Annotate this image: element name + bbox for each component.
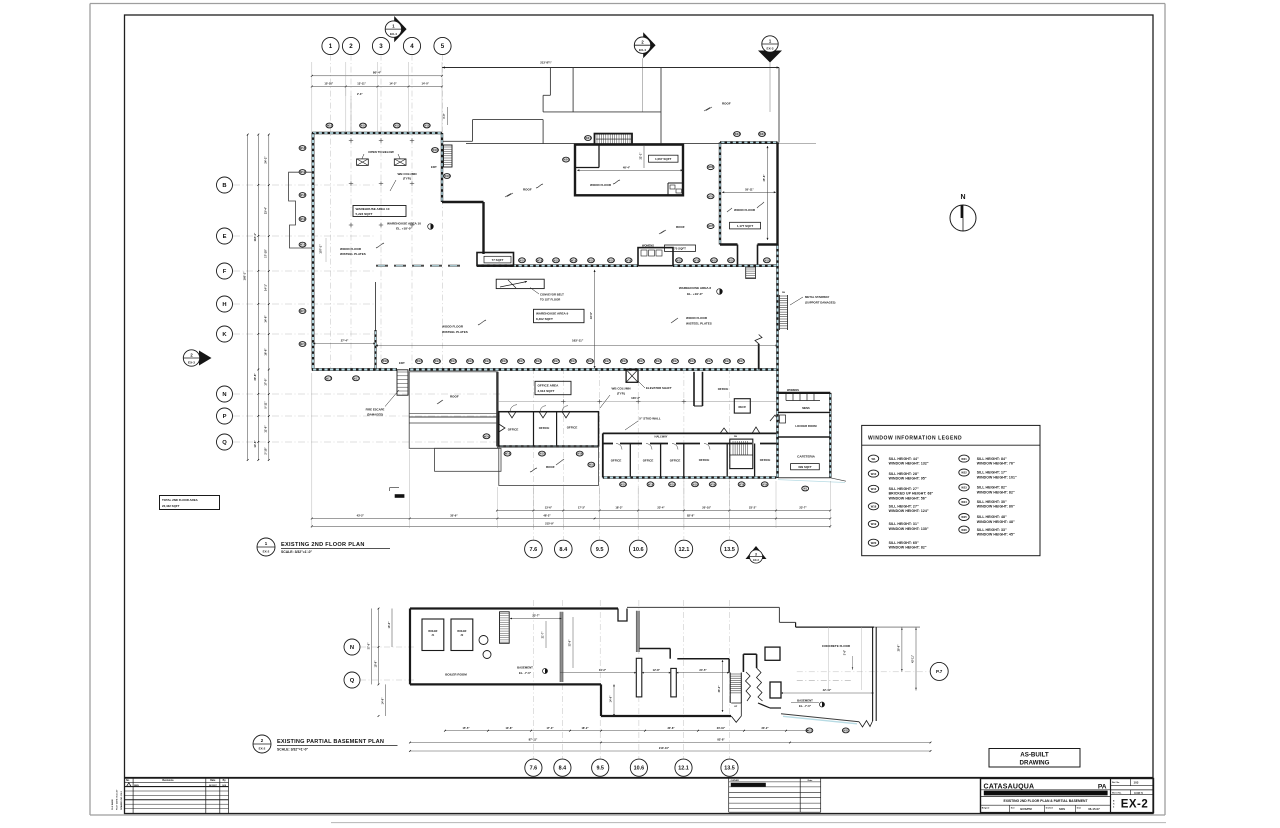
svg-text:PA: PA (1098, 783, 1107, 790)
svg-text:W13: W13 (467, 359, 473, 363)
svg-text:12.1: 12.1 (678, 547, 689, 553)
svg-text:(DAMAGED): (DAMAGED) (367, 413, 383, 417)
svg-text:8.4: 8.4 (559, 547, 568, 553)
warehouse 10 west wall (312, 133, 315, 370)
grid bubble 2 (342, 37, 359, 54)
svg-text:W13: W13 (450, 359, 456, 363)
grid bubble E (217, 228, 233, 244)
svg-text:42'-11": 42'-11" (912, 654, 915, 663)
dim segments top (312, 86, 442, 88)
grid bubble P (217, 408, 233, 424)
svg-text:126'-3": 126'-3" (631, 396, 641, 400)
window marker W19 (576, 451, 583, 456)
svg-text:W13: W13 (434, 359, 440, 363)
svg-text:9.5: 9.5 (596, 766, 604, 772)
window marker W17 (604, 359, 611, 364)
dim 126-3 (497, 401, 778, 403)
open to below hatch box 2 (394, 159, 406, 166)
svg-text:EXISTING 2ND FLOOR PLAN: EXISTING 2ND FLOOR PLAN (281, 542, 365, 548)
svg-text:4'-0": 4'-0" (442, 112, 446, 118)
svg-text:EL. -7'-0": EL. -7'-0" (799, 704, 812, 708)
window marker W18 (432, 148, 439, 153)
roof outline verticals (660, 68, 662, 144)
dim 21-7 basement (545, 621, 547, 648)
svg-text:BASEMENT: BASEMENT (797, 699, 813, 703)
window marker W13 (501, 359, 508, 364)
svg-text:WINDOW HEIGHT: 95": WINDOW HEIGHT: 95" (889, 477, 927, 481)
window marker W18 (299, 193, 306, 198)
svg-text:Q: Q (222, 440, 227, 446)
svg-text:OFFICE: OFFICE (611, 458, 622, 462)
svg-text:BASEMENT: BASEMENT (517, 666, 533, 670)
svg-text:W13: W13 (621, 359, 627, 363)
grid bubble 10.6 (629, 540, 647, 558)
svg-text:W18: W18 (608, 258, 614, 262)
svg-text:WINDOW HEIGHT: 132": WINDOW HEIGHT: 132" (889, 462, 929, 466)
grid line row H (233, 303, 374, 305)
svg-text:15'-5": 15'-5" (462, 726, 470, 730)
svg-text:W18: W18 (537, 258, 543, 262)
svg-text:Date: Date (808, 779, 814, 782)
grid bubble 4 (403, 37, 420, 54)
svg-text:87'-11": 87'-11" (529, 738, 538, 742)
svg-text:DRAWING: DRAWING (1020, 760, 1050, 767)
south warehouse wall west segment (312, 368, 397, 371)
svg-text:WINDOW HEIGHT: 48": WINDOW HEIGHT: 48" (977, 520, 1015, 524)
grid line col 12.1 (683, 368, 685, 540)
window marker W18 (382, 359, 389, 364)
svg-text:3,613 SQFT: 3,613 SQFT (538, 389, 555, 393)
office upper right walls (693, 372, 695, 406)
window marker W18 (570, 258, 577, 263)
svg-text:3'-6": 3'-6" (843, 649, 846, 655)
svg-text:WOOD FLOOR: WOOD FLOOR (734, 208, 756, 212)
dim 14-9 basement (613, 684, 615, 716)
svg-text:48'-4": 48'-4" (623, 165, 631, 169)
wall W10 to annex (442, 201, 484, 203)
svg-text:No.: No. (126, 780, 130, 782)
window marker W13 (621, 359, 628, 364)
svg-text:SILL HEIGHT: 28": SILL HEIGHT: 28" (889, 472, 919, 476)
svg-text:AS-BUILT: AS-BUILT (1020, 751, 1049, 758)
office wing west wall (496, 372, 498, 447)
window marker W13 (689, 359, 696, 364)
svg-text:W18: W18 (424, 123, 430, 127)
basement right east wall pair (872, 627, 874, 721)
svg-text:06-15-07: 06-15-07 (1088, 807, 1100, 811)
mid wall with windows (477, 264, 638, 267)
basement stair up (729, 673, 731, 704)
svg-text:SILL HEIGHT: 31": SILL HEIGHT: 31" (889, 522, 919, 526)
left office row south wall (499, 445, 599, 447)
svg-text:Revisions: Revisions (162, 779, 174, 782)
grid bubble Q (217, 434, 233, 450)
svg-text:W20: W20 (484, 434, 490, 438)
hallway door arcs (616, 444, 622, 450)
svg-text:77 SQFT: 77 SQFT (492, 258, 504, 262)
window marker W17 (706, 359, 713, 364)
svg-text:06/15/07: 06/15/07 (209, 785, 218, 787)
svg-text:SILL HEIGHT: 44": SILL HEIGHT: 44" (889, 457, 919, 461)
west annex footprint jogs (289, 172, 312, 248)
svg-text:UP: UP (734, 706, 738, 708)
svg-text:W17: W17 (604, 359, 610, 363)
grid bubble 8.4 (555, 540, 573, 558)
svg-text:14'-0": 14'-0" (422, 81, 430, 85)
window marker W18 (620, 482, 627, 487)
svg-text:24'-2": 24'-2" (264, 156, 268, 164)
stair house 1067 outer walls (575, 145, 683, 196)
svg-text:OFFICE AREA: OFFICE AREA (538, 383, 560, 387)
svg-text:EL. -7'-0": EL. -7'-0" (519, 671, 532, 675)
grid line col 10.6 (637, 368, 639, 540)
svg-text:22'-1": 22'-1" (639, 152, 643, 160)
window marker W13 (467, 359, 474, 364)
grid bubble F (217, 263, 233, 279)
window marker W26 (563, 157, 570, 162)
bottom extension lines (311, 373, 313, 528)
grid bubble N (344, 639, 360, 655)
window marker W18 (553, 258, 560, 263)
svg-text:EL. +19'-0": EL. +19'-0" (687, 292, 703, 296)
wood floor room 1177 walls (720, 141, 778, 143)
roof outline mid lines (543, 111, 661, 113)
womens mens rooms (778, 411, 830, 413)
svg-text:W18: W18 (676, 258, 682, 262)
grid line col 4 (411, 55, 413, 368)
svg-text:W26: W26 (961, 528, 967, 532)
svg-text:F: F (223, 269, 227, 275)
redacted firm bar (984, 791, 1108, 796)
basement mid south walls (600, 684, 602, 716)
wall stub x375 (375, 282, 377, 330)
hallway walls (603, 432, 776, 434)
svg-text:WOOD FLOOR: WOOD FLOOR (340, 247, 362, 251)
svg-text:W10: W10 (871, 472, 877, 476)
svg-text:Date: Date (210, 779, 216, 782)
svg-text:23'-4": 23'-4" (264, 206, 268, 214)
svg-text:SILL HEIGHT: 30": SILL HEIGHT: 30" (977, 500, 1007, 504)
window marker W19 (299, 217, 306, 222)
svg-text:WOOD FLOOR: WOOD FLOOR (590, 183, 612, 187)
svg-text:13'-11": 13'-11" (357, 81, 366, 85)
svg-text:N: N (222, 392, 226, 398)
svg-text:BCS/PM: BCS/PM (1020, 807, 1032, 811)
svg-text:ROOF: ROOF (450, 395, 459, 399)
dim 33-9 basement (572, 617, 574, 668)
window marker W18 (326, 123, 333, 128)
window marker W23 (707, 165, 714, 170)
window marker W18 (676, 258, 683, 263)
svg-text:12.1: 12.1 (678, 766, 689, 772)
womens room mid (638, 248, 673, 266)
window marker W18 (423, 123, 430, 128)
boiler 1 (422, 619, 444, 651)
svg-text:Sheet No.: Sheet No. (1112, 792, 1122, 795)
svg-text:15'-10": 15'-10" (324, 81, 334, 85)
svg-text:W18: W18 (553, 258, 559, 262)
basement roof line (627, 606, 779, 608)
window marker W13 (484, 359, 491, 364)
svg-text:34'-2": 34'-2" (599, 668, 607, 672)
svg-text:17'-0": 17'-0" (546, 726, 554, 730)
window marker W1 (802, 486, 809, 491)
grid bubble 12.1 (675, 540, 693, 558)
svg-text:WINDOW HEIGHT: 45": WINDOW HEIGHT: 45" (977, 533, 1015, 537)
svg-text:W19: W19 (300, 170, 306, 174)
svg-text:EX-4: EX-4 (639, 48, 646, 52)
svg-text:SILL HEIGHT: 27": SILL HEIGHT: 27" (889, 505, 919, 509)
svg-text:WB COLUMN: WB COLUMN (398, 172, 417, 176)
svg-text:W18: W18 (382, 359, 388, 363)
svg-text:82'-8": 82'-8" (687, 514, 695, 518)
section marker 2/EX-3 (199, 351, 212, 366)
svg-text:WAREHOUSE AREA 9: WAREHOUSE AREA 9 (536, 311, 569, 315)
window marker W20 (483, 434, 490, 439)
svg-text:5,223 SQFT: 5,223 SQFT (356, 212, 373, 216)
svg-text:W13: W13 (416, 359, 422, 363)
svg-text:EX-3: EX-3 (753, 559, 759, 562)
svg-text:WOMENS: WOMENS (642, 244, 654, 248)
window marker W19 (299, 170, 306, 175)
grid line col 13.5 (728, 368, 730, 540)
1177 sqft label box (730, 222, 761, 229)
basement pier 2 (671, 668, 677, 697)
upper jagged partitions (720, 428, 728, 433)
svg-text:TO 1ST FLOOR: TO 1ST FLOOR (540, 297, 560, 301)
basement right extension verticals (827, 627, 829, 690)
svg-text:75 SQFT: 75 SQFT (674, 247, 686, 251)
svg-text:(TYP.): (TYP.) (617, 391, 625, 395)
basement top right step (778, 607, 780, 622)
svg-text:103: 103 (1134, 780, 1139, 784)
svg-text:27'-4": 27'-4" (341, 339, 349, 343)
svg-text:WINDOW INFORMATION LEGEND: WINDOW INFORMATION LEGEND (868, 435, 962, 441)
owner redacted bar (731, 783, 766, 787)
paper edge bottom (90, 814, 1165, 816)
svg-text:17'-3": 17'-3" (578, 505, 586, 509)
roof outline right step (549, 68, 551, 96)
svg-text:ROOF: ROOF (523, 187, 532, 191)
metal stairway outside (779, 295, 781, 330)
svg-text:W18: W18 (571, 258, 577, 262)
top extension lines (311, 62, 313, 133)
svg-text:WINDOW HEIGHT: 124": WINDOW HEIGHT: 124" (889, 509, 929, 513)
svg-text:12'-8": 12'-8" (653, 668, 661, 672)
svg-text:OFFICE: OFFICE (760, 458, 771, 462)
window marker W18 (588, 462, 595, 467)
legend entry W23 (959, 484, 969, 491)
svg-text:ROOF: ROOF (676, 225, 685, 229)
svg-text:RECP.: RECP. (739, 405, 747, 409)
window marker W18 (444, 174, 451, 179)
window marker W19 (669, 482, 676, 487)
svg-text:(TYP.): (TYP.) (403, 177, 411, 181)
office dividers bottom row (629, 444, 631, 478)
grid line row B (233, 184, 374, 186)
window marker W18 (299, 146, 306, 151)
svg-text:W18: W18 (588, 258, 594, 262)
svg-text:82'-8": 82'-8" (717, 738, 725, 742)
svg-text:WINDOW HEIGHT: 130": WINDOW HEIGHT: 130" (889, 527, 929, 531)
corridor stair (746, 267, 756, 279)
elevator shaft (626, 370, 638, 383)
svg-text:23'-2": 23'-2" (761, 726, 769, 730)
svg-text:W23: W23 (734, 132, 740, 136)
sheet no cell (1111, 789, 1154, 791)
grid bubble 13.5 (721, 540, 739, 558)
svg-text:N: N (350, 645, 354, 651)
demolished wall dashes (376, 265, 388, 267)
svg-text:20'-8": 20'-8" (897, 644, 900, 652)
svg-text:W13: W13 (871, 487, 877, 491)
revision row 1 triangle (127, 783, 131, 786)
legend entry W26 (959, 526, 969, 533)
dim 23-7 basement (510, 618, 562, 620)
window marker W17 (638, 359, 645, 364)
svg-text:SILL HEIGHT: 17": SILL HEIGHT: 17" (977, 471, 1007, 475)
svg-text:EX-3: EX-3 (767, 47, 774, 51)
svg-text:(SUPPORT DAMAGES): (SUPPORT DAMAGES) (805, 300, 836, 304)
dim 12-8 basement (642, 672, 671, 674)
svg-text:EXIT: EXIT (399, 361, 405, 365)
svg-text:14'-9": 14'-9" (610, 695, 613, 703)
svg-text:3: 3 (379, 43, 383, 50)
svg-text:W23: W23 (759, 132, 765, 136)
75 sqft label box (665, 245, 696, 251)
bottom dim row A (497, 510, 830, 512)
svg-text:W18: W18 (694, 258, 700, 262)
dim 42-11 horizontal basement (781, 692, 874, 694)
stairwell office area (730, 439, 753, 469)
svg-text:5: 5 (441, 43, 445, 50)
grid line col 2 (350, 55, 352, 368)
svg-text:10.6: 10.6 (633, 547, 644, 553)
paper edge left (89, 4, 91, 816)
dim 24-5 basement (676, 672, 729, 674)
svg-text:7.6: 7.6 (530, 547, 538, 553)
svg-text:W19: W19 (762, 482, 768, 486)
svg-text:EX-3: EX-3 (188, 361, 195, 365)
dim 55-11 (722, 191, 776, 193)
svg-text:W25: W25 (961, 515, 967, 519)
grid line col 3 (380, 55, 382, 368)
svg-text:W22: W22 (843, 728, 849, 732)
svg-text:CONCRETE FLOOR: CONCRETE FLOOR (822, 644, 851, 648)
main east wall (776, 245, 779, 479)
window marker W18 (299, 242, 306, 247)
catasauqua title block box (981, 779, 1154, 813)
svg-text:5" STUD WALL: 5" STUD WALL (639, 417, 661, 421)
grid line row Q (233, 441, 500, 443)
svg-text:W22: W22 (961, 471, 967, 475)
svg-text:213'-8¾": 213'-8¾" (540, 60, 552, 64)
grid bubble H (217, 296, 233, 312)
window marker W18 (647, 482, 654, 487)
svg-text:W17: W17 (706, 359, 712, 363)
svg-text:699 SQFT: 699 SQFT (798, 465, 812, 469)
svg-text:SCALE: 3/32"=1'-0": SCALE: 3/32"=1'-0" (281, 550, 312, 554)
grid bubble 12.1 (675, 759, 692, 776)
svg-text:EX-2: EX-2 (1121, 799, 1149, 811)
svg-text:NNN: NNN (134, 785, 139, 787)
legend entry W19 (868, 520, 878, 527)
svg-text:Ref. No: Ref. No (1112, 782, 1120, 784)
svg-text:EX-4: EX-4 (390, 32, 397, 36)
svg-text:W18: W18 (648, 482, 654, 486)
boiler tanks (479, 636, 488, 645)
as-built drawing box (989, 749, 1080, 768)
svg-text:WINDOW HEIGHT: 82": WINDOW HEIGHT: 82" (889, 546, 927, 550)
svg-text:48'-2": 48'-2" (543, 514, 551, 518)
basement jagged rooms (742, 654, 744, 672)
basement grid rows (360, 646, 415, 648)
svg-text:W/STEEL PLATES: W/STEEL PLATES (686, 321, 712, 325)
sheet border (125, 15, 1154, 814)
paper edge top (90, 3, 1165, 5)
warehouse 10 east wall (441, 133, 443, 202)
window marker W18 (394, 123, 401, 128)
fire escape (397, 370, 408, 395)
stair house stair bump (595, 134, 633, 145)
svg-text:42'-11": 42'-11" (823, 688, 832, 692)
window marker W17 (518, 359, 525, 364)
cafeteria damaged south edge (778, 477, 830, 479)
grid line row F (233, 270, 374, 272)
svg-text:43'-9": 43'-9" (589, 311, 593, 319)
left office door jambs (508, 412, 516, 418)
svg-text:W18: W18 (764, 258, 770, 262)
dim 22-1 vertical (643, 146, 645, 168)
svg-text:WAREHOUSE AREA 10: WAREHOUSE AREA 10 (356, 207, 390, 211)
svg-text:SILL HEIGHT: 82": SILL HEIGHT: 82" (977, 486, 1007, 490)
svg-text:2: 2 (349, 43, 353, 50)
svg-text:22,432 SQFT: 22,432 SQFT (162, 504, 180, 508)
window marker W13 (655, 359, 662, 364)
recp room (734, 399, 750, 413)
grid bubble 7.6 (525, 540, 543, 558)
svg-text:W18: W18 (871, 505, 877, 509)
svg-text:55'-11": 55'-11" (745, 187, 754, 191)
svg-text:OFFICE: OFFICE (670, 458, 681, 462)
svg-text:W13: W13 (689, 359, 695, 363)
boiler gray wall mid (560, 612, 563, 682)
boiler room stair (500, 612, 510, 644)
window marker W19 (761, 482, 768, 487)
svg-text:W23: W23 (961, 486, 967, 490)
svg-text:SILL HEIGHT: 33": SILL HEIGHT: 33" (977, 528, 1007, 532)
svg-text:W/STEEL PLATES: W/STEEL PLATES (442, 330, 468, 334)
svg-text:2'-3": 2'-3" (357, 92, 363, 96)
svg-text:ELEVATOR SHAFT: ELEVATOR SHAFT (646, 386, 672, 390)
window marker W18 (536, 258, 543, 263)
svg-text:16'-0": 16'-0" (388, 621, 391, 629)
basement right center dashes (797, 679, 853, 681)
svg-text:W24: W24 (585, 136, 591, 140)
grid bubble 8.4 (554, 759, 571, 776)
svg-text:W18: W18 (711, 258, 717, 262)
svg-text:OWNER: OWNER (731, 780, 740, 782)
svg-text:W19: W19 (505, 452, 511, 456)
svg-text:P.7: P.7 (936, 669, 943, 674)
dim 21-4 (313, 343, 376, 345)
svg-text:14'-3": 14'-3" (389, 81, 397, 85)
svg-text:OFFICE: OFFICE (643, 458, 654, 462)
dim 45-6 vertical (767, 146, 769, 240)
svg-text:W13: W13 (724, 359, 730, 363)
grid line col 5 (442, 55, 444, 368)
dim 48-4 (577, 169, 683, 171)
